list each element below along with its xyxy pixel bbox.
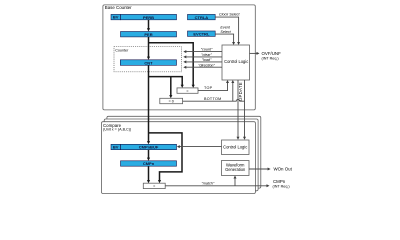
wire clear bbox=[186, 56, 223, 58]
svg-text:(INT Req.): (INT Req.) bbox=[262, 56, 279, 60]
svg-text:(Unit x = (A,B,C)): (Unit x = (A,B,C)) bbox=[103, 128, 131, 132]
wire BOTTOM to control logic with hop bbox=[183, 99, 245, 101]
svg-text:TOP: TOP bbox=[204, 86, 213, 90]
wire CMPnBUF to CMPn bbox=[148, 150, 150, 159]
register EVCTRL bbox=[188, 31, 216, 36]
svg-text:=: = bbox=[186, 89, 188, 93]
svg-text:CMPnBUF: CMPnBUF bbox=[139, 145, 159, 150]
svg-text:UPDATE: UPDATE bbox=[238, 82, 243, 101]
wire direction bbox=[186, 66, 223, 68]
svg-text:= 0: = 0 bbox=[169, 99, 174, 103]
register CMPn bbox=[121, 161, 177, 166]
wire branch to zero comparator bbox=[170, 77, 172, 96]
wire OVF/UNF bbox=[250, 52, 258, 54]
svg-text:(INT Req.): (INT Req.) bbox=[273, 185, 290, 189]
svg-text:OVF/UNF: OVF/UNF bbox=[262, 51, 282, 56]
register CMPnBUF with BV bbox=[111, 144, 121, 149]
base counter outer box bbox=[103, 5, 255, 110]
svg-text:EVCTRL: EVCTRL bbox=[193, 31, 210, 36]
svg-text:Clock Select: Clock Select bbox=[219, 12, 240, 16]
svg-text:CTRLA: CTRLA bbox=[195, 15, 209, 20]
comparator BOTTOM =0 bbox=[160, 98, 183, 103]
comparator TOP = bbox=[177, 88, 198, 93]
wire UPDATE bbox=[237, 80, 239, 137]
register PER bbox=[121, 32, 177, 37]
svg-text:CMPn: CMPn bbox=[273, 179, 286, 184]
svg-text:Generation: Generation bbox=[225, 167, 246, 172]
waveform generation box bbox=[222, 161, 250, 176]
svg-text:CNT: CNT bbox=[144, 60, 153, 65]
wire PER to CNT bbox=[148, 37, 150, 58]
wire WOn out bbox=[249, 168, 268, 170]
wire PER to TOP comparator bbox=[149, 43, 194, 86]
wire event select bbox=[215, 34, 233, 43]
wire match bbox=[165, 185, 267, 187]
compare outer box middle (unit B) bbox=[104, 119, 258, 191]
compare outer box back (unit C) bbox=[107, 116, 261, 188]
wire CNT bus down to compare bbox=[148, 65, 150, 142]
svg-text:BV: BV bbox=[113, 145, 119, 150]
svg-text:PER: PER bbox=[144, 32, 152, 37]
wire control logic to CMPnBUF bbox=[179, 146, 221, 148]
wire CNT branch to comparators bbox=[149, 77, 183, 86]
wire clock select bbox=[215, 17, 238, 43]
comparator compare = bbox=[143, 183, 165, 188]
svg-text:"load": "load" bbox=[202, 58, 212, 62]
svg-text:"clear": "clear" bbox=[201, 53, 212, 57]
register CTRLA bbox=[188, 14, 216, 19]
control logic U2 (compare) bbox=[222, 140, 250, 155]
svg-text:CMPn: CMPn bbox=[143, 161, 155, 166]
svg-text:"count": "count" bbox=[201, 48, 213, 52]
register CNT bbox=[120, 60, 176, 66]
svg-text:Base Counter: Base Counter bbox=[105, 5, 132, 10]
wire BOTTOM up branch bbox=[232, 83, 234, 102]
register PERB with BV bbox=[111, 14, 121, 19]
wire PERB to PER bbox=[148, 20, 150, 29]
wire CNT bypass to comparator bbox=[149, 133, 183, 181]
wire CMPn to comparator bbox=[148, 166, 150, 181]
wire TOP to control logic bbox=[198, 83, 228, 91]
svg-text:Control Logic: Control Logic bbox=[223, 145, 247, 150]
svg-text:BV: BV bbox=[113, 15, 119, 20]
wire count bbox=[186, 51, 223, 53]
svg-text:"direction": "direction" bbox=[198, 63, 215, 67]
wire match to waveform generation bbox=[234, 178, 236, 186]
svg-text:Control Logic: Control Logic bbox=[224, 59, 248, 64]
svg-text:Event: Event bbox=[220, 26, 230, 30]
svg-text:Counter: Counter bbox=[115, 49, 129, 53]
svg-text:Select: Select bbox=[220, 30, 231, 34]
compare outer box front (unit A) bbox=[102, 122, 256, 194]
svg-text:"match": "match" bbox=[202, 182, 215, 186]
svg-text:BOTTOM: BOTTOM bbox=[204, 97, 222, 101]
svg-text:PERB: PERB bbox=[143, 15, 154, 20]
svg-text:WOn Out: WOn Out bbox=[274, 167, 293, 172]
wire load bbox=[186, 61, 223, 63]
svg-text:=: = bbox=[153, 184, 155, 188]
control logic U1 (base) bbox=[222, 45, 250, 80]
counter dashed box bbox=[114, 47, 182, 72]
